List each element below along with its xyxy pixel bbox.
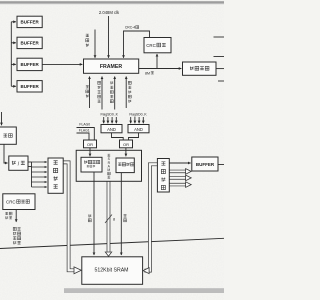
svg-text:512Kbit SRAM: 512Kbit SRAM — [94, 268, 128, 274]
svg-text:BUFFER: BUFFER — [20, 41, 39, 46]
svg-text:CRC-4: CRC-4 — [125, 26, 135, 30]
svg-text:OR: OR — [87, 142, 93, 147]
svg-text:CRC: CRC — [6, 199, 16, 204]
svg-text:BUFFER: BUFFER — [196, 162, 215, 167]
svg-text:BUFFER: BUFFER — [20, 62, 39, 67]
svg-text:AND: AND — [134, 127, 143, 132]
svg-text:FLAG0: FLAG0 — [79, 123, 90, 127]
svg-text:OR: OR — [123, 142, 129, 147]
svg-text:8M: 8M — [145, 72, 150, 76]
svg-text:AND: AND — [107, 127, 116, 132]
svg-text:FRAMER: FRAMER — [100, 64, 122, 70]
svg-text:FLAG1: FLAG1 — [79, 129, 90, 133]
svg-text:2.048M clk: 2.048M clk — [99, 10, 120, 15]
svg-text:M: M — [107, 168, 110, 172]
svg-text:CRC: CRC — [146, 43, 156, 48]
svg-text:FlagSD0..K: FlagSD0..K — [129, 112, 147, 116]
svg-text:BUFFER: BUFFER — [20, 20, 39, 25]
svg-text:8: 8 — [113, 218, 115, 222]
svg-text:FlagSD0..K: FlagSD0..K — [101, 112, 119, 116]
svg-text:BUFFER: BUFFER — [20, 84, 39, 89]
